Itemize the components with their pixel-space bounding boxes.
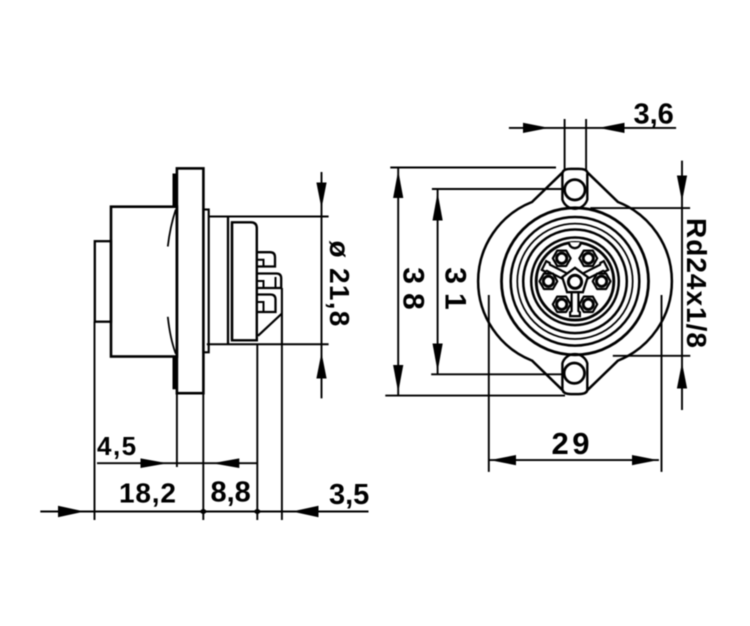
pin east bbox=[597, 276, 607, 286]
chain junction diamond at flange right bbox=[199, 508, 208, 514]
29 extension line left bbox=[488, 295, 490, 472]
pin pocket sw bbox=[553, 297, 571, 312]
solder terminal T2 (middle) bbox=[257, 274, 281, 289]
chain arrow left (points right) bbox=[58, 506, 85, 517]
31 extension line bottom bbox=[431, 373, 562, 375]
pin ne bbox=[583, 253, 593, 263]
body cosmetic arc bottom bbox=[168, 317, 176, 354]
38 extension line bottom bbox=[385, 395, 565, 397]
contact guide rib bottom (270deg) bbox=[570, 291, 580, 316]
circle c4 bbox=[531, 237, 619, 325]
flange outline (rounded diamond with hole bosses) bbox=[478, 169, 672, 394]
bottom extension line flange right bbox=[202, 393, 204, 520]
pin pocket se bbox=[579, 297, 597, 312]
center pin bbox=[568, 275, 581, 288]
dia 21.8 top arrow bbox=[316, 183, 326, 209]
38 extension line top bbox=[390, 167, 556, 169]
3,6 dimension line (top) bbox=[509, 127, 676, 129]
3,6 arrow right (points left) bbox=[599, 123, 625, 133]
bottom extension line terminal tips bbox=[281, 344, 283, 520]
arrow 4,5 left (points right) bbox=[141, 458, 168, 468]
terminal T2 inner vertical bbox=[275, 277, 277, 288]
29 arrow left (points left) bbox=[490, 455, 516, 465]
dia 21.8 dimension line (vertical) bbox=[321, 172, 323, 398]
Rd24 arrow bottom (points up) bbox=[677, 363, 687, 389]
bottom mounting hole bbox=[564, 363, 584, 383]
Rd24 extension line bottom bbox=[613, 355, 691, 357]
Rd24 arrow top (points down) bbox=[677, 176, 687, 202]
body cosmetic arc top bbox=[168, 210, 176, 247]
bottom extension line flange left bbox=[176, 393, 178, 467]
chain dimension line bottom bbox=[40, 511, 368, 513]
38 arrow top (points up) bbox=[393, 171, 403, 199]
31 arrow top (points up) bbox=[433, 193, 443, 221]
bottom boss inner U + relief arc bbox=[562, 354, 587, 390]
Rd24x1/8 dimension line bbox=[681, 161, 683, 410]
31 arrow bottom (points down) bbox=[433, 344, 443, 372]
terminal block chamfer diagonal bbox=[258, 314, 282, 336]
keyway notch at top of rim bbox=[569, 242, 581, 248]
step ring behind flange bbox=[203, 210, 208, 353]
collar right vertical bbox=[227, 217, 229, 345]
svg-text:ø 21,8: ø 21,8 bbox=[324, 241, 355, 328]
svg-text:8,8: 8,8 bbox=[211, 477, 251, 509]
solder terminal T1 (top) bbox=[257, 252, 275, 266]
gasket bar top (filled) bbox=[173, 174, 178, 207]
terminal T1 notch bbox=[257, 260, 264, 267]
pin se bbox=[583, 299, 593, 309]
contact guide rib left (150deg) bbox=[542, 261, 568, 280]
bottom extension line barrel right bbox=[256, 344, 258, 520]
pin pocket ne bbox=[579, 251, 597, 266]
terminal block right edge bbox=[281, 288, 283, 344]
gasket bar bottom (filled) bbox=[173, 357, 178, 390]
pin pocket east bbox=[593, 274, 611, 289]
center hub pentagon bbox=[562, 268, 588, 292]
dimension line 4,5 bbox=[97, 462, 257, 464]
dia 21.8 bottom arrow bbox=[316, 353, 326, 379]
outer circle c1 bbox=[502, 208, 649, 355]
pin sw bbox=[557, 299, 567, 309]
pin nw bbox=[557, 253, 567, 263]
svg-text:3,6: 3,6 bbox=[634, 99, 674, 131]
svg-text:29: 29 bbox=[552, 426, 593, 461]
svg-text:38: 38 bbox=[397, 267, 430, 318]
svg-text:3,5: 3,5 bbox=[329, 479, 369, 511]
29 extension line right bbox=[661, 295, 663, 472]
circle c2b (thread minor) bbox=[517, 224, 632, 339]
svg-text:4,5: 4,5 bbox=[97, 431, 138, 461]
rear housing (small rectangle at left) bbox=[95, 241, 111, 322]
barrel left edge bbox=[231, 222, 233, 340]
circle c3 bbox=[523, 229, 627, 333]
contact guide rib right (30deg) bbox=[582, 261, 608, 280]
31 extension line top bbox=[432, 188, 562, 190]
3,6 extension line right bbox=[585, 119, 587, 170]
38 arrow bottom (points down) bbox=[393, 365, 403, 393]
extension line collar top / dia 21.8 top bbox=[209, 216, 329, 218]
socket rim circle bbox=[536, 242, 614, 320]
top boss inner U + relief arc bbox=[562, 173, 587, 209]
circle c2 bbox=[511, 217, 640, 346]
svg-text:18,2: 18,2 bbox=[119, 478, 177, 509]
mounting flange plate bbox=[177, 168, 204, 393]
29 arrow right (points right) bbox=[632, 455, 658, 465]
terminal T2 notch bbox=[257, 281, 264, 288]
pin pocket west bbox=[540, 274, 558, 289]
3,6 arrow left (points right) bbox=[523, 123, 549, 133]
38 dimension line bbox=[397, 168, 399, 395]
extension line collar bottom / dia 21.8 bottom bbox=[207, 343, 329, 345]
svg-text:31: 31 bbox=[438, 267, 471, 318]
solder terminal T3 (bottom) bbox=[257, 295, 276, 313]
3,6 extension line left bbox=[564, 119, 566, 170]
Rd24 extension line top bbox=[590, 207, 690, 209]
chain junction diamond at barrel right bbox=[253, 508, 262, 514]
svg-text:Rd24x1/8: Rd24x1/8 bbox=[681, 218, 712, 349]
top mounting hole bbox=[565, 180, 585, 200]
29 dimension line (bottom) bbox=[489, 459, 659, 461]
terminal T3 notch bbox=[257, 302, 264, 312]
bottom extension line from rear housing bbox=[94, 322, 96, 520]
main body rectangle bbox=[111, 207, 177, 357]
pin west bbox=[543, 276, 553, 286]
barrel (threaded nose) bbox=[232, 222, 257, 340]
pin pocket nw bbox=[553, 251, 571, 266]
chain arrow right (points left) bbox=[292, 506, 319, 517]
31 dimension line bbox=[437, 189, 439, 374]
arrow 4,5 right (points left) bbox=[212, 458, 239, 468]
